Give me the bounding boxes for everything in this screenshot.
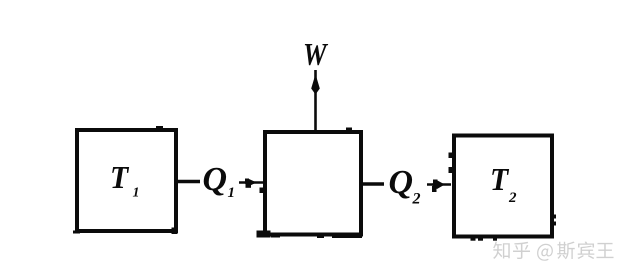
svg-text:Q: Q: [389, 164, 414, 201]
cold reservoir box T2: [454, 136, 552, 237]
arrowhead W up: [311, 74, 320, 95]
engine box: [265, 132, 361, 235]
scan artifact: T2 box left-edge nub 1: [449, 153, 453, 159]
scan artifact: nubs on Q2 arrowhead: [433, 180, 438, 184]
wire: work output line from engine top: [314, 70, 317, 131]
scan artifact: nub on engine left edge below Q1 arrow: [260, 188, 264, 194]
label T2: [490, 161, 517, 206]
scan artifact: T2 box left-edge nub 2: [449, 167, 453, 173]
svg-text:W: W: [303, 38, 328, 73]
wire: Q2 stub from engine box: [363, 182, 384, 186]
scan artifact: engine box top-right tick: [346, 128, 352, 131]
scan artifact: nubs on Q1 arrowhead: [245, 179, 249, 183]
hot reservoir box T1: [77, 130, 176, 231]
label Q2: [389, 164, 421, 208]
scan artifact: T1 box bottom-left nub: [73, 231, 80, 234]
scan artifact: T2 box right-edge bump 1: [553, 215, 557, 219]
wire: Q1 arrow line into engine: [239, 181, 263, 183]
scan artifact: engine box bottom-right thick edge: [337, 234, 362, 239]
svg-text:1: 1: [133, 186, 140, 201]
scan artifact: engine box bottom tick 3: [332, 236, 337, 238]
scan artifact: engine box bottom-left blob: [257, 231, 271, 238]
scan artifact: T1 box bottom-right corner blob: [172, 228, 178, 235]
wire: Q2 arrow line into T2 box: [427, 183, 451, 185]
svg-text:2: 2: [508, 190, 517, 206]
wire: Q1 stub from T1 box: [178, 180, 200, 184]
arrowhead Q1 right: [244, 179, 257, 186]
svg-text:2: 2: [412, 191, 421, 208]
scan artifact: T2 box bottom ticks: [471, 239, 476, 241]
label T1: [110, 159, 140, 200]
label Q1: [203, 161, 236, 201]
scan artifact: engine box bottom dash 1: [271, 234, 280, 238]
svg-text:T: T: [110, 159, 129, 195]
svg-text:1: 1: [228, 185, 236, 201]
scan artifact: T2 box right-edge bump 2: [553, 222, 557, 226]
arrowhead Q2 right: [431, 180, 445, 189]
svg-text:Q: Q: [203, 161, 228, 198]
watermark zhihu @sibinwang: [493, 241, 613, 260]
svg-text:T: T: [490, 161, 509, 197]
scan artifact: tick above T1 box top-right: [156, 126, 163, 129]
scan artifact: engine box bottom tick 2: [317, 236, 324, 238]
